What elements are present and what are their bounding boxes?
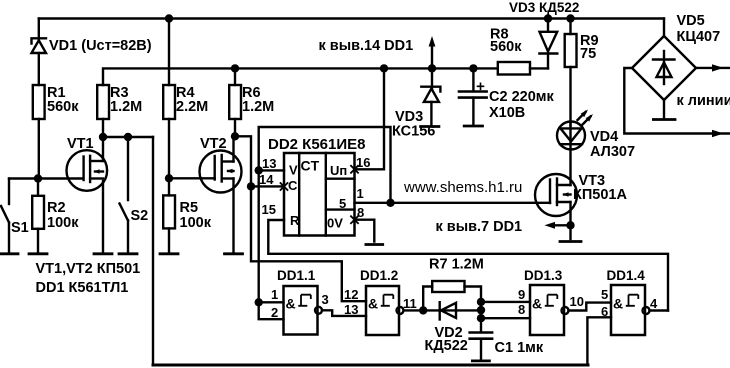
schmitt symbol DD1.1 [298, 295, 311, 306]
wire DD1.3 out to DD1.4 pin5 [569, 303, 612, 311]
node DD2 pin13 junction [255, 166, 263, 174]
svg-text:5: 5 [601, 287, 608, 302]
node pin1 feedback junction [386, 199, 394, 207]
node VT1 drain junction [99, 133, 107, 141]
svg-text:&: & [286, 296, 296, 312]
resistor R3 [97, 85, 109, 137]
svg-text:DD1.2: DD1.2 [360, 268, 398, 283]
wire DD1.4 pin6 to bottom rail [587, 317, 611, 364]
svg-text:1: 1 [357, 186, 364, 201]
svg-text:13: 13 [262, 156, 276, 171]
wire second rail (stabilized supply) [103, 68, 548, 85]
gate DD1.4 [611, 285, 650, 335]
wire bridge left vertex to lower output [624, 68, 729, 134]
svg-text:АЛ307: АЛ307 [590, 144, 635, 160]
wire DD1.1 inputs [259, 302, 284, 319]
svg-text:КД522: КД522 [425, 338, 468, 354]
pin marker DD2 C dynamic input [281, 183, 288, 190]
arrow output lower [712, 130, 724, 137]
resistor R1 [33, 85, 45, 179]
node DD1.1 input junction [255, 298, 263, 306]
LED VD4 [557, 110, 593, 150]
ground VT3 [560, 240, 581, 243]
resistor R2 [32, 179, 44, 252]
svg-text:VD4: VD4 [590, 129, 618, 145]
wire DD1.1 out to DD1.2 pin13 [322, 310, 366, 316]
wire VT2 source to ground [232, 179, 234, 252]
svg-text:Х10В: Х10В [489, 105, 525, 121]
svg-text:DD1.3: DD1.3 [524, 268, 563, 283]
svg-text:1.2M: 1.2M [242, 99, 274, 115]
svg-text:Uп: Uп [330, 163, 347, 178]
zener diode VD3 KC156 [421, 68, 440, 125]
ground VT1 source [94, 252, 112, 255]
svg-text:к выв.14 DD1: к выв.14 DD1 [319, 38, 414, 54]
pin marker DD2 pin8 [351, 216, 358, 223]
svg-text:560к: 560к [47, 99, 79, 115]
resistor R6 [229, 68, 241, 136]
node VD3 top rail [544, 14, 552, 22]
wire reset net DD1.4 output to DD2 pin15 [268, 220, 668, 311]
svg-text:C: C [288, 178, 298, 193]
node VD2 left junction [419, 306, 427, 314]
wire DD2 pin1 output to VT3 gate [355, 202, 551, 204]
gate DD1.2 [366, 286, 404, 335]
wire VT2 gate net [169, 177, 215, 179]
resistor R4 [163, 19, 175, 179]
node VT3 source junction [566, 221, 574, 229]
wire bridge bottom vertex [663, 100, 665, 119]
svg-text:75: 75 [580, 46, 596, 62]
svg-text:2.2M: 2.2M [176, 99, 208, 115]
svg-text:13: 13 [344, 302, 358, 317]
svg-text:С2 220мк: С2 220мк [489, 89, 554, 105]
svg-text:11: 11 [403, 296, 417, 311]
svg-text:&: & [613, 296, 623, 312]
wire VT1 drain to R3 [102, 137, 104, 161]
transistor VT1 [67, 150, 108, 191]
svg-text:DD1 К561ТЛ1: DD1 К561ТЛ1 [36, 280, 129, 296]
node S2 tap [124, 133, 132, 141]
node VT1 gate junction [34, 174, 42, 182]
svg-text:к выв.7 DD1: к выв.7 DD1 [436, 219, 523, 235]
svg-text:R: R [290, 213, 300, 228]
svg-text:100к: 100к [180, 215, 212, 231]
svg-text:VT1: VT1 [67, 136, 94, 152]
wire LED to VT3 drain [569, 122, 571, 186]
wire DD2 pin16 to second rail [355, 68, 385, 169]
wire VT3 source down [569, 202, 571, 239]
wire DD1.3 pin9 [481, 301, 530, 303]
svg-text:VT2: VT2 [200, 136, 227, 152]
svg-text:DD2 К561ИЕ8: DD2 К561ИЕ8 [268, 136, 366, 153]
ground VT2 source [225, 252, 243, 255]
ground C1 [472, 359, 489, 362]
resistor R9 [565, 19, 577, 126]
svg-text:DD1.4: DD1.4 [607, 268, 646, 283]
wire VT1 gate net [9, 177, 82, 179]
arrow output upper [712, 64, 724, 71]
node pin16 rail junction [380, 64, 388, 72]
node VT2 gate junction [165, 174, 173, 182]
svg-text:1: 1 [271, 287, 278, 302]
svg-text:VD3 КД522: VD3 КД522 [509, 0, 579, 15]
ground R5 [160, 252, 178, 255]
capacitor C2 polarized [459, 68, 487, 124]
wire clock net VT2 drain to DD2 pin14 and DD1.2 pin12 [235, 136, 366, 301]
schmitt symbol DD1.4 [626, 295, 639, 306]
svg-text:S1: S1 [11, 220, 29, 236]
schmitt symbol DD1.3 [545, 295, 558, 306]
node RC column mid [477, 306, 485, 314]
svg-text:КС156: КС156 [392, 124, 435, 140]
schmitt symbol DD1.2 [381, 295, 394, 306]
svg-text:8: 8 [357, 205, 364, 220]
transistor VT2 [200, 151, 242, 193]
ground R2 [29, 252, 47, 255]
node R6 top on second rail [231, 64, 239, 72]
svg-text:15: 15 [262, 202, 276, 217]
wire VT2 drain riser [234, 136, 236, 161]
wire DD1.4 output [650, 309, 669, 311]
wire arrow to pin7 DD1 [545, 222, 571, 229]
diode VD3 KD522 top [540, 19, 558, 69]
node RC column pin8 [477, 314, 485, 322]
svg-text:14: 14 [259, 172, 274, 187]
svg-text:DD1.1: DD1.1 [277, 268, 316, 283]
svg-text:&: & [532, 296, 542, 312]
svg-text:С1 1мк: С1 1мк [495, 340, 544, 356]
resistor R7 [423, 281, 481, 332]
wire DD2 pin8 to ground [355, 220, 375, 242]
svg-text:VD1 (Uст=82В): VD1 (Uст=82В) [49, 38, 152, 54]
svg-text:2: 2 [271, 305, 278, 320]
svg-text:4: 4 [650, 296, 658, 311]
wire DD2 pin13 input [259, 169, 284, 171]
svg-text:100к: 100к [47, 215, 79, 231]
svg-text:КЦ407: КЦ407 [677, 29, 721, 45]
gate DD1.1 [284, 286, 323, 335]
wire arrow to pin14 DD1 [429, 36, 436, 68]
transistor VT3 [535, 174, 577, 216]
node RC column pin9 [477, 298, 485, 306]
svg-text:10: 10 [570, 294, 584, 309]
node DD2 pin14 junction [247, 182, 255, 190]
switch S1 [1, 179, 9, 252]
capacitor C1 [470, 333, 492, 360]
node R9 top rail [566, 14, 574, 22]
wire VT1 drain branch to S2 and long drop [103, 136, 153, 138]
bridge rectifier VD5 [632, 19, 696, 101]
node R4 top [165, 14, 173, 22]
svg-text:КП501А: КП501А [573, 187, 627, 203]
wire DD2 pin14 clock input [251, 185, 284, 187]
wire bottom rail [153, 364, 588, 367]
svg-text:3: 3 [322, 292, 329, 307]
svg-text:R5: R5 [180, 200, 199, 216]
ground bridge [653, 118, 675, 121]
wire DD1.2 output [404, 309, 482, 311]
svg-text:&: & [368, 296, 378, 312]
wire feedback net DD2 pin13 to pin1 and DD1.1 inputs [259, 127, 391, 302]
wire long drop to bottom rail [152, 137, 154, 364]
wire top positive rail [39, 17, 664, 19]
svg-text:6: 6 [601, 304, 608, 319]
pin marker DD2 pin16 [351, 166, 358, 173]
svg-text:5: 5 [339, 196, 346, 211]
node C2 rail junction [469, 64, 477, 72]
svg-text:16: 16 [356, 155, 370, 170]
node VD3 rail junction [428, 64, 436, 72]
resistor R8 [498, 62, 530, 75]
svg-text:0V: 0V [327, 216, 343, 231]
IC DD2 K561IE8 counter [284, 153, 355, 236]
svg-text:VT1,VT2 КП501: VT1,VT2 КП501 [36, 261, 141, 277]
svg-text:R7 1.2M: R7 1.2M [429, 257, 484, 273]
svg-text:V: V [289, 163, 298, 178]
svg-text:S2: S2 [131, 208, 149, 224]
gate DD1.3 [530, 285, 569, 335]
ground DD2 pin8 [366, 243, 383, 246]
ground VD3 [421, 125, 439, 128]
svg-text:VD5: VD5 [677, 13, 705, 29]
svg-text:к линии: к линии [677, 93, 730, 109]
node VT2 drain junction [231, 132, 239, 140]
svg-text:9: 9 [518, 287, 525, 302]
ground C2 [464, 125, 482, 128]
svg-text:12: 12 [344, 287, 358, 302]
zener diode VD1 [32, 19, 47, 86]
svg-text:8: 8 [518, 302, 525, 317]
svg-text:www.shems.h1.ru: www.shems.h1.ru [403, 179, 522, 196]
svg-text:1.2M: 1.2M [110, 99, 142, 115]
wire bridge right vertex output [696, 67, 730, 69]
wire VT1 source to ground [102, 181, 104, 252]
svg-text:CT: CT [301, 158, 320, 174]
ground S2 [119, 252, 137, 255]
ground S1 [1, 252, 19, 255]
svg-text:560к: 560к [490, 39, 522, 55]
svg-text:R2: R2 [47, 200, 66, 216]
switch S2 [120, 137, 129, 252]
resistor R5 [163, 178, 175, 251]
wire DD1.3 pin8 [481, 317, 530, 319]
diode VD2 [440, 302, 456, 319]
